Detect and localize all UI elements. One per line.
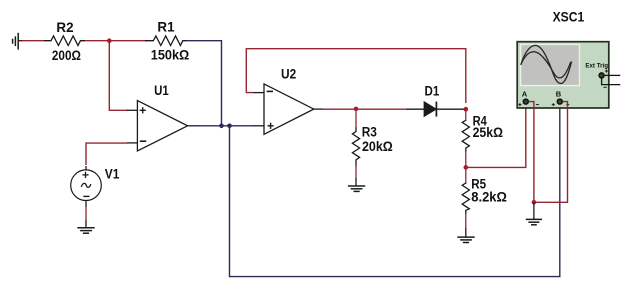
svg-text:B: B xyxy=(556,89,562,98)
wire: node A down to U1 + input xyxy=(109,41,128,111)
AC source V1 xyxy=(71,166,102,207)
resistor R3 xyxy=(355,109,357,128)
ext trig terminal xyxy=(599,73,604,78)
svg-text:U1: U1 xyxy=(154,83,169,98)
oscilloscope XSC1 xyxy=(517,42,620,108)
node B junction (feedback from R1) xyxy=(219,124,224,129)
ground GND5 (scope grounds) xyxy=(526,202,542,225)
wire: GND1 to R2 xyxy=(22,40,46,42)
node D junction (R3 top) xyxy=(354,107,359,112)
ground GND2 (below V1) xyxy=(77,221,94,234)
wire: feedback U2 - input to node E xyxy=(246,49,465,103)
svg-text:R1: R1 xyxy=(157,18,174,34)
ground GND4 (below R5) xyxy=(457,228,474,243)
wire: node D to D1 anode xyxy=(356,108,408,110)
channel A +/- marks xyxy=(518,103,539,106)
wire: R2 to node A xyxy=(85,40,109,42)
wire: U2 output to node D xyxy=(323,108,356,110)
node E junction (D1 cathode / R4 / feedback) xyxy=(464,107,469,112)
resistor R4 xyxy=(465,109,467,121)
wire: node C to scope channel B + (bottom rail) xyxy=(230,105,560,277)
svg-text:V1: V1 xyxy=(105,167,120,182)
svg-text:8.2kΩ: 8.2kΩ xyxy=(471,189,507,204)
resistor R2 xyxy=(44,36,85,46)
op-amp U1 xyxy=(127,101,199,151)
wire: U1 output to U2 + input xyxy=(198,125,254,127)
svg-text:Ext Trig: Ext Trig xyxy=(585,63,608,70)
resistor R1 xyxy=(145,36,187,46)
wire: V1 to GND2 xyxy=(85,206,87,222)
node F junction (R4 / R5 / scope A) xyxy=(464,165,469,170)
svg-text:R2: R2 xyxy=(56,19,73,35)
op-amp U2 xyxy=(253,84,323,134)
ext trig +/- marks xyxy=(604,70,609,88)
svg-text:R3: R3 xyxy=(362,125,378,140)
wire: V1 top to U1 - input xyxy=(86,143,128,165)
ground GND3 (below R3) xyxy=(348,178,365,191)
svg-text:150kΩ: 150kΩ xyxy=(151,46,190,62)
trace big xyxy=(521,45,572,83)
node A junction xyxy=(107,38,112,43)
svg-text:XSC1: XSC1 xyxy=(553,9,585,24)
svg-text:200Ω: 200Ω xyxy=(52,47,81,63)
wire: scope A - to ground GND5 xyxy=(529,102,534,203)
channel A terminal xyxy=(523,99,528,104)
trace small xyxy=(521,52,571,78)
svg-text:D1: D1 xyxy=(425,83,440,98)
svg-text:20kΩ: 20kΩ xyxy=(362,139,393,154)
node G junction (A-/B- to ground) xyxy=(532,200,537,205)
resistor R5 xyxy=(465,167,467,184)
svg-text:A: A xyxy=(522,89,528,98)
screen xyxy=(521,44,580,85)
ground GND1 (left of R2) xyxy=(13,33,23,50)
wire: R1 to U1 output node (net top) xyxy=(187,41,222,126)
wire: node F to scope channel A + xyxy=(466,105,526,168)
instrument body xyxy=(517,42,609,108)
node C junction (to scope channel B) xyxy=(227,124,232,129)
diode D1 xyxy=(407,102,465,117)
svg-text:U2: U2 xyxy=(281,67,296,82)
ext trig + pin xyxy=(602,75,621,84)
svg-text:25kΩ: 25kΩ xyxy=(473,125,504,140)
channel B +/- marks xyxy=(552,103,569,106)
wire: node A to R1 xyxy=(109,40,146,42)
wire: scope B - to ground GND5 xyxy=(534,102,568,203)
channel B terminal xyxy=(557,99,562,104)
